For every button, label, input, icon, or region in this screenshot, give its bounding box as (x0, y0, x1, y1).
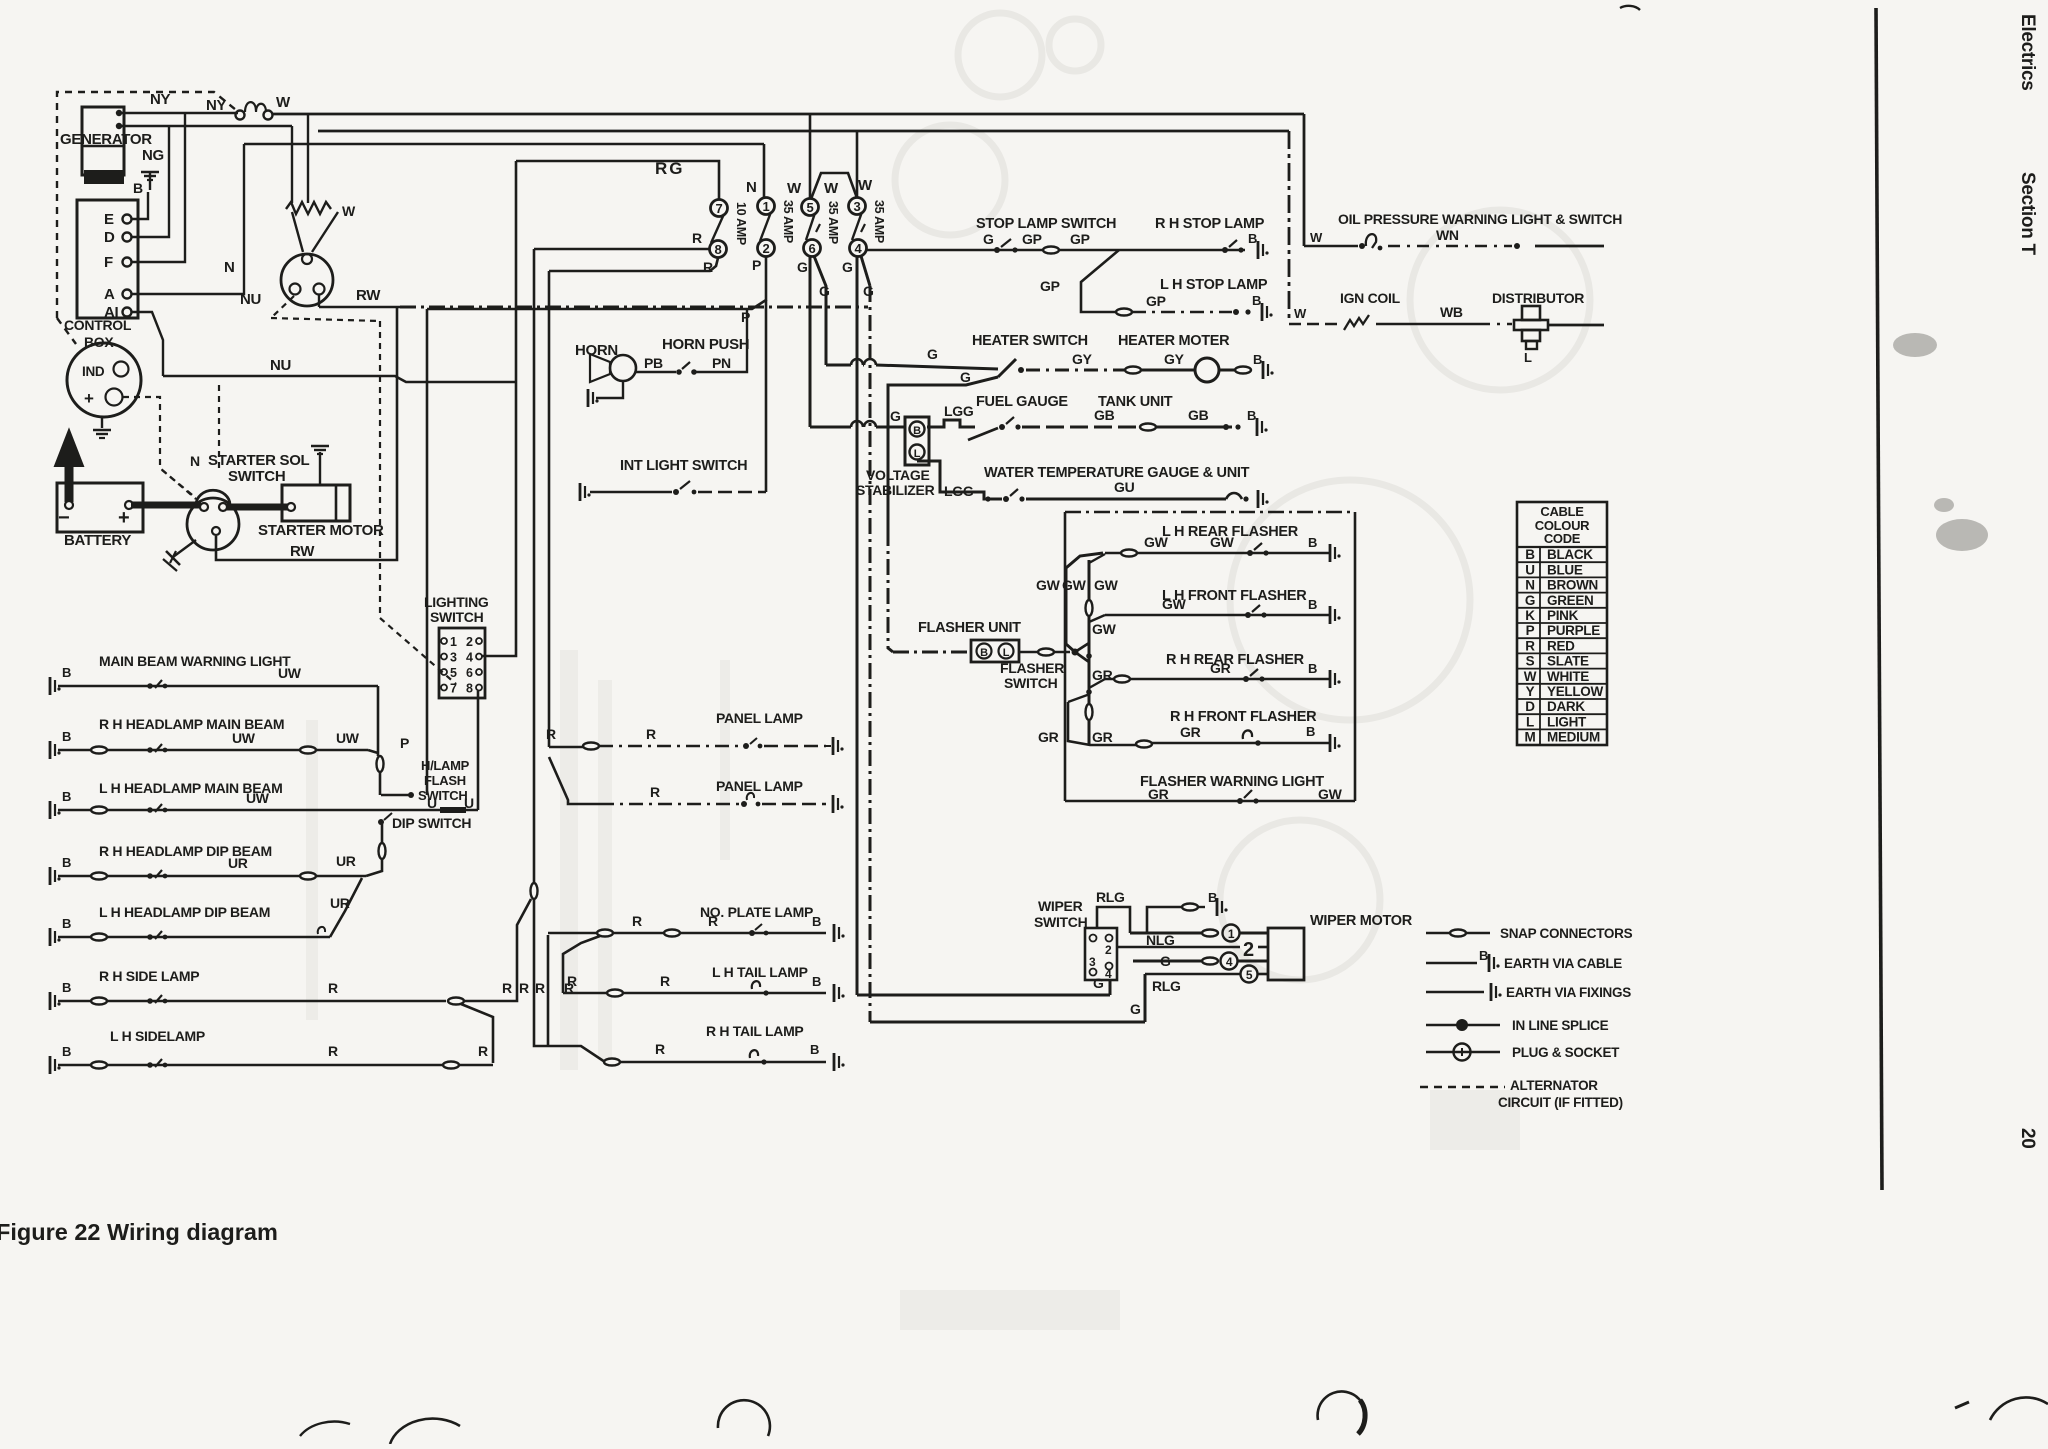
svg-text:B: B (1247, 408, 1256, 423)
svg-text:B: B (810, 1042, 819, 1057)
flasher circuit box (1065, 511, 1355, 513)
svg-text:W: W (1310, 230, 1323, 245)
wire RW ignition to solenoid (318, 295, 320, 307)
wire R lower from fuse 8 (549, 258, 718, 271)
svg-text:UR: UR (336, 853, 356, 869)
svg-text:GU: GU (1114, 479, 1135, 495)
lighting switch (439, 628, 485, 698)
svg-text:B: B (1253, 352, 1262, 367)
wire AI to NU (131, 312, 163, 376)
bleed-through ghosts (895, 13, 1590, 980)
svg-text:GY: GY (1072, 351, 1093, 367)
svg-text:P: P (400, 735, 409, 751)
svg-text:35 AMP: 35 AMP (872, 200, 886, 243)
wire RLG loop (1097, 907, 1130, 933)
svg-text:D: D (1525, 699, 1535, 714)
svg-text:HEATER SWITCH: HEATER SWITCH (972, 333, 1088, 349)
svg-text:R H REAR FLASHER: R H REAR FLASHER (1166, 652, 1305, 668)
svg-text:L: L (1526, 714, 1534, 729)
svg-text:B: B (1248, 231, 1257, 246)
wire W to ign coil (1288, 131, 1291, 322)
svg-text:RED: RED (1547, 638, 1575, 653)
svg-text:2: 2 (1105, 943, 1112, 957)
LH dip bulb curl (318, 927, 325, 934)
snap connector NY/W (236, 111, 245, 120)
wire switch terminal 8 to dip circuit (477, 691, 480, 810)
svg-text:W: W (342, 203, 356, 219)
fuse 5 (802, 199, 819, 216)
svg-text:G: G (863, 283, 874, 299)
fuse tick marks (816, 224, 820, 232)
svg-text:2: 2 (466, 635, 473, 649)
fuse feeds (809, 114, 812, 199)
page rule (1876, 8, 1882, 1190)
svg-text:M: M (1525, 730, 1536, 745)
svg-text:UR: UR (228, 855, 248, 871)
svg-text:SWITCH: SWITCH (430, 609, 484, 625)
wire stop lamp main (866, 249, 1245, 252)
svg-text:3: 3 (1089, 955, 1096, 969)
svg-text:U: U (1525, 562, 1534, 577)
starter solenoid switch (187, 498, 239, 550)
ballast resistor (291, 126, 293, 203)
svg-text:GW: GW (1092, 621, 1117, 637)
wiper motor (1268, 928, 1304, 980)
svg-text:6: 6 (809, 241, 816, 256)
svg-text:GW: GW (1094, 577, 1119, 593)
svg-text:GREEN: GREEN (1547, 593, 1594, 608)
svg-text:ALTERNATOR: ALTERNATOR (1510, 1078, 1598, 1093)
ign coil (1344, 315, 1369, 330)
heater motor (1141, 369, 1194, 372)
svg-text:PANEL LAMP: PANEL LAMP (716, 710, 803, 726)
svg-text:FLASH: FLASH (424, 773, 466, 788)
fuse 3 (849, 198, 866, 215)
svg-text:4: 4 (1226, 955, 1233, 969)
wire F (131, 113, 185, 262)
svg-text:RLG: RLG (1096, 889, 1125, 905)
svg-text:W: W (276, 94, 291, 111)
battery cable to solenoid (131, 502, 201, 509)
svg-text:DARK: DARK (1547, 699, 1585, 714)
svg-text:FLASHER UNIT: FLASHER UNIT (918, 620, 1021, 636)
svg-text:Figure 22 Wiring diagram: Figure 22 Wiring diagram (0, 1219, 278, 1245)
wire P to flash switch (426, 309, 429, 795)
svg-text:GP: GP (1022, 231, 1042, 247)
svg-text:7: 7 (450, 682, 457, 696)
svg-text:G: G (842, 259, 853, 275)
svg-text:B: B (62, 916, 71, 931)
svg-text:P: P (741, 309, 750, 325)
svg-text:N: N (190, 453, 200, 469)
svg-text:W: W (1294, 306, 1307, 321)
svg-text:35 AMP: 35 AMP (781, 200, 795, 243)
svg-text:G: G (983, 231, 994, 247)
svg-text:GB: GB (1094, 407, 1115, 423)
svg-text:L H HEADLAMP DIP BEAM: L H HEADLAMP DIP BEAM (99, 904, 270, 920)
svg-text:L H TAIL LAMP: L H TAIL LAMP (712, 964, 808, 980)
svg-text:B: B (1525, 547, 1535, 562)
wire R vertical to panel lamps (548, 271, 551, 747)
svg-text:NU: NU (240, 291, 261, 308)
wire N bus to fuse 1 (244, 143, 764, 146)
svg-text:NU: NU (270, 357, 291, 374)
svg-text:B: B (1306, 724, 1315, 739)
svg-text:GR: GR (1210, 660, 1231, 676)
svg-text:3: 3 (854, 199, 861, 214)
alternator circuit dashed outline (57, 92, 236, 318)
svg-text:8: 8 (715, 242, 722, 257)
svg-text:DIP SWITCH: DIP SWITCH (392, 815, 471, 831)
svg-text:GW: GW (1210, 534, 1235, 550)
svg-text:D: D (104, 229, 115, 246)
svg-text:2: 2 (1243, 939, 1254, 961)
svg-text:BLACK: BLACK (1547, 547, 1593, 562)
svg-text:PINK: PINK (1547, 608, 1579, 623)
svg-text:R: R (535, 980, 545, 996)
wire B earth branch (1147, 907, 1182, 933)
svg-text:L: L (1524, 350, 1532, 365)
legend alternator circuit (1420, 1086, 1505, 1088)
svg-text:B: B (1308, 597, 1317, 612)
svg-text:R H FRONT FLASHER: R H FRONT FLASHER (1170, 709, 1317, 725)
fuse 10amp bottom (710, 241, 727, 258)
svg-text:WHITE: WHITE (1547, 669, 1589, 684)
svg-text:DISTRIBUTOR: DISTRIBUTOR (1492, 290, 1584, 306)
svg-text:CODE: CODE (1544, 531, 1581, 546)
svg-text:SWITCH: SWITCH (1034, 914, 1088, 930)
svg-text:N: N (224, 259, 235, 276)
svg-text:PB: PB (644, 355, 663, 371)
svg-text:GY: GY (1164, 351, 1185, 367)
svg-text:−: − (58, 507, 69, 529)
battery terminals (65, 501, 73, 509)
svg-text:N: N (746, 179, 757, 196)
wire W top bus (272, 113, 1304, 116)
svg-text:GP: GP (1146, 293, 1166, 309)
svg-text:R: R (650, 784, 660, 800)
legend in line splice (1426, 1024, 1500, 1027)
dashed link ammeter to solenoid (123, 397, 196, 499)
svg-text:B: B (1479, 948, 1488, 963)
svg-text:5: 5 (807, 200, 814, 215)
svg-text:E: E (104, 211, 114, 228)
svg-text:HEATER MOTER: HEATER MOTER (1118, 333, 1230, 349)
svg-text:GW: GW (1318, 786, 1343, 802)
svg-text:N: N (1525, 578, 1534, 593)
svg-text:GW: GW (1036, 577, 1061, 593)
svg-text:BATTERY: BATTERY (64, 532, 131, 549)
svg-text:CABLE: CABLE (1540, 504, 1584, 519)
starter motor ground (319, 452, 321, 485)
fuse 1 (758, 198, 775, 215)
svg-text:STARTER MOTOR: STARTER MOTOR (258, 522, 384, 539)
svg-text:R: R (646, 726, 656, 742)
dashed vertical to lighting switch (380, 321, 456, 684)
svg-text:Section T: Section T (2017, 172, 2038, 256)
svg-text:G: G (1525, 593, 1535, 608)
cable colour code table (1517, 502, 1607, 745)
wire A to fuse N (131, 144, 244, 294)
svg-text:G: G (890, 408, 901, 424)
svg-text:GENERATOR: GENERATOR (60, 131, 152, 148)
svg-text:B: B (62, 1044, 71, 1059)
svg-text:IND: IND (82, 364, 105, 379)
cable solenoid to starter motor (227, 504, 292, 511)
flasher switch (1066, 553, 1103, 652)
svg-text:G: G (797, 259, 808, 275)
svg-text:SLATE: SLATE (1547, 654, 1589, 669)
svg-text:UW: UW (232, 730, 256, 746)
svg-text:BLUE: BLUE (1547, 562, 1583, 577)
wire G fuse 6 to fuel gauge (809, 257, 812, 427)
wire dip feed (381, 822, 384, 845)
svg-text:R H HEADLAMP MAIN BEAM: R H HEADLAMP MAIN BEAM (99, 716, 284, 732)
svg-text:8: 8 (466, 682, 473, 696)
svg-text:5: 5 (1246, 968, 1253, 982)
svg-text:FLASHER: FLASHER (1000, 660, 1064, 676)
fuse 4 (850, 240, 867, 257)
wire NU (163, 376, 516, 382)
svg-text:Y: Y (1526, 684, 1535, 699)
svg-text:B: B (133, 180, 143, 196)
svg-text:B: B (812, 974, 821, 989)
svg-text:LIGHTING: LIGHTING (424, 594, 489, 610)
svg-text:EARTH VIA CABLE: EARTH VIA CABLE (1504, 956, 1622, 971)
wire RG (516, 161, 719, 199)
ground near generator B (141, 171, 159, 174)
svg-text:1: 1 (450, 635, 457, 649)
wire P from fuse 2 (427, 257, 766, 309)
svg-text:Electrics: Electrics (2017, 14, 2038, 91)
svg-text:LGG: LGG (944, 403, 974, 419)
wire flasher feed (893, 651, 971, 654)
svg-text:R: R (519, 980, 529, 996)
svg-text:PURPLE: PURPLE (1547, 623, 1600, 638)
wire generator field NG (119, 125, 292, 128)
svg-text:GW: GW (1162, 596, 1187, 612)
svg-text:L: L (914, 448, 921, 460)
svg-text:CIRCUIT (IF FITTED): CIRCUIT (IF FITTED) (1498, 1095, 1623, 1110)
legend earth via fixings (1426, 991, 1484, 994)
svg-text:B: B (1252, 293, 1261, 308)
svg-text:WB: WB (1440, 304, 1463, 320)
svg-text:10 AMP: 10 AMP (734, 202, 748, 245)
wire main beam vertical (377, 686, 380, 756)
svg-text:RG: RG (655, 159, 685, 178)
svg-text:PANEL LAMP: PANEL LAMP (716, 778, 803, 794)
svg-text:K: K (1525, 608, 1535, 623)
wire RG vertical to lighting switch (481, 161, 516, 656)
wire fuel gauge (810, 426, 851, 429)
fuse 6 (804, 240, 821, 257)
dashed ignition to NU (271, 296, 294, 318)
svg-text:4: 4 (855, 241, 863, 256)
wire G to wiper switch (857, 994, 1110, 997)
svg-text:B: B (913, 425, 921, 437)
wire heater (826, 364, 851, 367)
svg-text:VOLTAGE: VOLTAGE (866, 467, 930, 483)
svg-text:GP: GP (1040, 278, 1060, 294)
svg-text:MAIN BEAM WARNING LIGHT: MAIN BEAM WARNING LIGHT (99, 653, 291, 669)
svg-text:RW: RW (356, 287, 381, 304)
svg-text:R H TAIL LAMP: R H TAIL LAMP (706, 1023, 803, 1039)
wire G fuse 6 branch to heater (814, 256, 826, 365)
wire R vertical to side lamps (533, 249, 536, 884)
wire G fuse 4 long run (856, 257, 859, 995)
legend earth via cable (1426, 962, 1477, 965)
svg-text:WN: WN (1436, 227, 1459, 243)
svg-text:PN: PN (712, 355, 731, 371)
svg-text:STOP LAMP SWITCH: STOP LAMP SWITCH (976, 216, 1116, 232)
svg-text:20: 20 (2017, 1128, 2038, 1149)
svg-text:GP: GP (1070, 231, 1090, 247)
svg-text:R: R (703, 259, 713, 275)
legend plug and socket (1426, 1051, 1500, 1054)
svg-text:R: R (478, 1043, 488, 1059)
svg-text:R: R (328, 980, 338, 996)
svg-text:G: G (819, 283, 830, 299)
svg-text:BROWN: BROWN (1547, 578, 1598, 593)
wire side lamp link (461, 1004, 493, 1063)
svg-text:1: 1 (763, 199, 770, 214)
ammeter IND (67, 343, 141, 417)
flash switch contacts (381, 794, 410, 797)
fuse 2 (758, 240, 775, 257)
svg-text:U: U (427, 795, 437, 811)
svg-text:R: R (692, 230, 702, 246)
starter motor (282, 485, 350, 521)
wire RW vertical to solenoid (216, 307, 397, 560)
svg-text:SWITCH: SWITCH (1004, 675, 1058, 691)
svg-text:LIGHT: LIGHT (1547, 714, 1587, 729)
svg-text:UW: UW (246, 790, 270, 806)
svg-text:1: 1 (1228, 927, 1235, 941)
svg-text:R: R (502, 980, 512, 996)
svg-text:L H STOP LAMP: L H STOP LAMP (1160, 277, 1268, 293)
svg-text:EARTH VIA FIXINGS: EARTH VIA FIXINGS (1506, 985, 1631, 1000)
svg-text:GR: GR (1180, 724, 1201, 740)
svg-text:WIPER MOTOR: WIPER MOTOR (1310, 913, 1413, 929)
svg-text:NY: NY (206, 97, 227, 114)
svg-text:R: R (632, 913, 642, 929)
svg-text:STABILIZER: STABILIZER (856, 482, 935, 498)
wire E to ground B (131, 192, 148, 219)
svg-text:SWITCH: SWITCH (418, 788, 467, 803)
svg-text:GW: GW (1144, 534, 1169, 550)
svg-text:NG: NG (142, 147, 164, 164)
svg-text:YELLOW: YELLOW (1547, 684, 1604, 699)
svg-text:UW: UW (278, 665, 302, 681)
svg-text:7: 7 (716, 201, 723, 216)
svg-text:B: B (62, 980, 71, 995)
wire LH dip join (330, 878, 362, 937)
svg-text:SNAP CONNECTORS: SNAP CONNECTORS (1500, 926, 1633, 941)
svg-text:GR: GR (1038, 729, 1059, 745)
svg-text:R: R (660, 973, 670, 989)
svg-text:F: F (104, 254, 113, 271)
svg-text:B: B (812, 914, 821, 929)
svg-text:PLUG & SOCKET: PLUG & SOCKET (1512, 1045, 1620, 1060)
ground below ammeter (101, 417, 103, 428)
svg-text:G: G (927, 346, 938, 362)
wire LH sidelamp end (443, 1062, 459, 1069)
wiper switch (1085, 928, 1117, 980)
svg-text:A: A (104, 286, 115, 303)
svg-text:W: W (858, 177, 873, 194)
svg-text:IN LINE SPLICE: IN LINE SPLICE (1512, 1018, 1609, 1033)
svg-text:B: B (1308, 535, 1317, 550)
svg-text:WIPER: WIPER (1038, 898, 1083, 914)
svg-text:L: L (1003, 647, 1010, 659)
svg-text:W: W (1524, 669, 1537, 684)
wire R upper from fuse 8 (534, 248, 710, 251)
svg-text:+: + (118, 507, 129, 529)
svg-text:R: R (655, 1041, 665, 1057)
svg-text:GR: GR (1148, 786, 1169, 802)
wire RH side lamp continuation (448, 998, 464, 1005)
legend snap connectors (1426, 932, 1490, 935)
ignition switch (292, 212, 303, 252)
wire D (131, 126, 169, 237)
battery (57, 483, 143, 532)
fuse link tent (811, 173, 857, 199)
svg-text:NY: NY (150, 91, 171, 108)
svg-text:P: P (752, 257, 761, 273)
svg-text:R: R (708, 913, 718, 929)
svg-text:FUEL GAUGE: FUEL GAUGE (976, 394, 1068, 410)
svg-text:5: 5 (450, 666, 457, 680)
svg-text:4: 4 (466, 651, 473, 665)
svg-text:R H SIDE LAMP: R H SIDE LAMP (99, 968, 199, 984)
svg-text:RW: RW (290, 543, 315, 560)
svg-text:UW: UW (336, 730, 360, 746)
flasher unit (971, 640, 1019, 662)
distributor (1522, 306, 1540, 320)
control box (77, 200, 138, 318)
svg-text:OIL PRESSURE WARNING LIGHT & S: OIL PRESSURE WARNING LIGHT & SWITCH (1338, 211, 1622, 227)
svg-text:R: R (567, 973, 577, 989)
svg-text:B: B (62, 855, 71, 870)
svg-text:R: R (328, 1043, 338, 1059)
dashed link to solenoid (162, 470, 196, 498)
svg-text:IGN COIL: IGN COIL (1340, 290, 1401, 306)
svg-text:B: B (980, 647, 988, 659)
svg-text:G: G (1130, 1001, 1141, 1017)
svg-text:+: + (84, 389, 94, 408)
svg-text:P: P (1526, 623, 1535, 638)
svg-text:NLG: NLG (1146, 932, 1175, 948)
svg-text:R H STOP LAMP: R H STOP LAMP (1155, 216, 1265, 232)
wire GP branch to LH stop lamp (1081, 250, 1119, 312)
svg-text:CONTROL: CONTROL (64, 317, 132, 333)
svg-text:3: 3 (450, 651, 457, 665)
svg-text:W: W (824, 180, 839, 197)
punch hole marks (718, 1400, 770, 1436)
svg-text:W: W (787, 180, 802, 197)
svg-text:4: 4 (1105, 967, 1112, 981)
svg-text:L H SIDELAMP: L H SIDELAMP (110, 1028, 205, 1044)
svg-text:S: S (1526, 654, 1535, 669)
svg-text:INT LIGHT SWITCH: INT LIGHT SWITCH (620, 458, 747, 474)
svg-text:R: R (546, 726, 556, 742)
svg-text:HORN PUSH: HORN PUSH (662, 336, 749, 353)
svg-text:MEDIUM: MEDIUM (1547, 730, 1600, 745)
svg-text:STARTER SOL: STARTER SOL (208, 452, 310, 469)
wire NY generator to connector (119, 112, 238, 115)
wire bus 2 to ign coil (318, 130, 1289, 133)
battery feed arrow (65, 464, 74, 502)
